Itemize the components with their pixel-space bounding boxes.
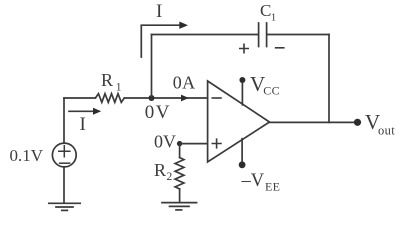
label + non-inverting input: [212, 139, 221, 148]
node 0V junction dot: [149, 95, 155, 101]
label R1: [101, 70, 122, 93]
wire R2 to ground: [179, 189, 181, 203]
label R2: [154, 160, 173, 183]
svg-text:1: 1: [116, 81, 122, 93]
svg-text:–V: –V: [241, 171, 265, 191]
svg-text:0.1V: 0.1V: [10, 146, 44, 165]
svg-text:R: R: [101, 70, 113, 90]
svg-text:2: 2: [167, 171, 173, 183]
svg-text:I: I: [80, 114, 86, 135]
capacitor C1: [259, 23, 267, 47]
svg-text:0V: 0V: [154, 132, 176, 152]
wire source to ground: [63, 167, 65, 203]
ground under source: [49, 203, 80, 210]
label Vout: [365, 110, 395, 138]
arrowhead 0A current into op-amp: [181, 95, 189, 102]
node Vout terminal dot: [354, 119, 361, 126]
svg-text:0A: 0A: [173, 73, 196, 93]
wire source top to input wire: [63, 98, 65, 143]
svg-text:C: C: [260, 1, 271, 20]
resistor R1: [95, 94, 124, 103]
supply -VEE stem: [241, 139, 243, 165]
svg-text:CC: CC: [263, 84, 280, 98]
supply VCC stem: [241, 80, 243, 105]
wire op-amp output to Vout: [270, 121, 358, 123]
svg-text:0V: 0V: [145, 102, 171, 123]
op-amp U1: [208, 81, 270, 162]
svg-text:I: I: [156, 1, 162, 22]
wire feedback left vertical: [151, 35, 153, 99]
svg-text:EE: EE: [265, 179, 280, 193]
wire input left segment: [64, 97, 95, 99]
node non-inverting junction dot: [177, 141, 182, 146]
label C1: [260, 1, 276, 23]
supply VCC dot: [239, 77, 245, 83]
svg-text:1: 1: [271, 11, 277, 23]
label VCC: [250, 72, 280, 98]
wire feedback top left segment: [152, 34, 259, 36]
wire feedback right vertical: [328, 35, 330, 123]
current arrow I input: [69, 108, 101, 115]
svg-text:out: out: [378, 124, 395, 138]
ground under R2: [162, 203, 197, 210]
label -VEE: [241, 171, 281, 194]
wire junction to R2: [179, 144, 181, 158]
current arrow I feedback: [141, 22, 188, 58]
wire non-inverting input: [180, 143, 207, 145]
svg-text:R: R: [154, 160, 166, 180]
label - cap polarity: [276, 47, 284, 49]
supply -VEE dot: [239, 161, 246, 168]
wire R1 to op-amp inverting input: [124, 97, 207, 99]
voltage source V1 0.1V: [52, 143, 76, 167]
wire feedback top right segment: [267, 34, 329, 36]
label + cap polarity: [240, 44, 248, 52]
resistor R2: [175, 158, 184, 189]
label - inverting input: [212, 97, 221, 99]
